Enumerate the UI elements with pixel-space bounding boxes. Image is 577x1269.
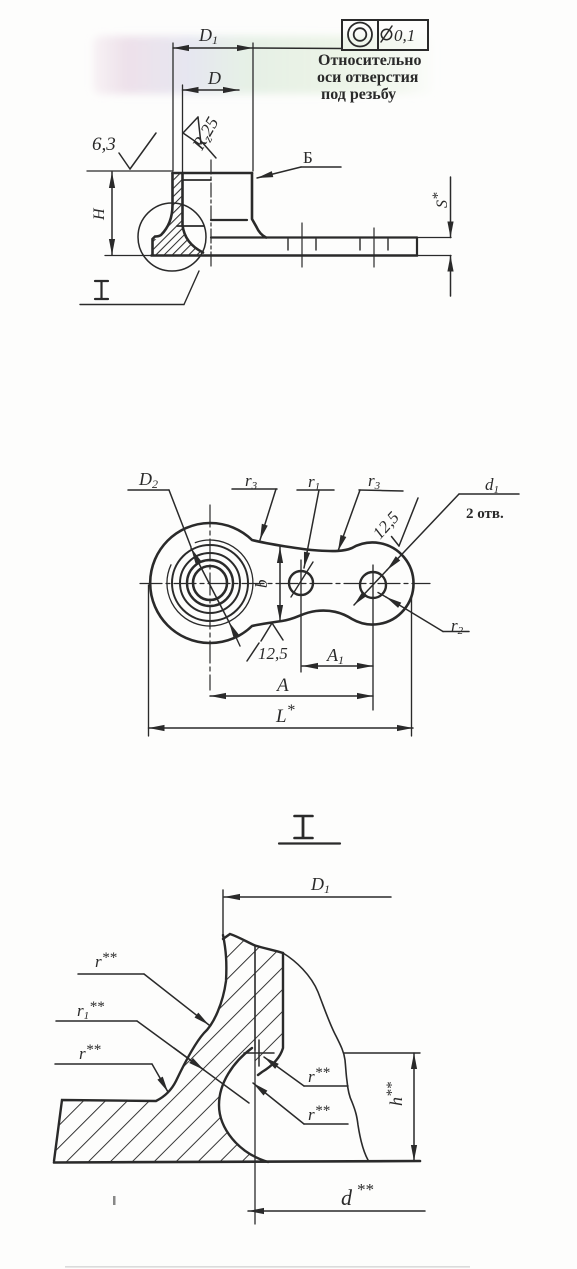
svg-text:b: b — [252, 580, 271, 589]
svg-text:H: H — [91, 207, 108, 221]
svg-text:D: D — [207, 68, 221, 88]
svg-text:A: A — [275, 675, 289, 696]
svg-text:Относительно: Относительно — [318, 52, 421, 69]
svg-text:0,1: 0,1 — [394, 26, 415, 45]
svg-text:оси отверстия: оси отверстия — [317, 69, 419, 86]
svg-text:6,3: 6,3 — [92, 134, 116, 155]
svg-text:12,5: 12,5 — [258, 644, 288, 663]
svg-text:2 отв.: 2 отв. — [466, 506, 504, 522]
svg-text:Б: Б — [303, 148, 313, 167]
svg-text:под резьбу: под резьбу — [321, 86, 396, 103]
